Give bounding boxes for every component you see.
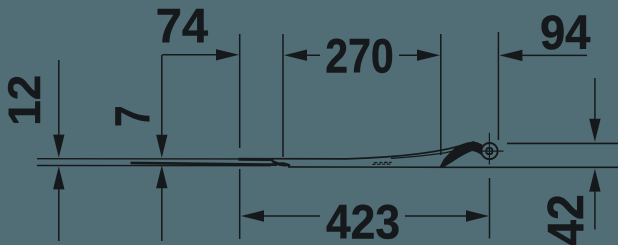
arrow 42 up [589, 169, 600, 192]
dimension line 42 upper shaft [594, 78, 596, 122]
hinge center mark vertical [488, 133, 490, 165]
seat back thick line (B) [131, 163, 278, 165]
dimension line 42 lower shaft [594, 190, 596, 230]
rim line right (R) [456, 166, 618, 168]
dimension line 74 [162, 54, 228, 56]
svg-text:270: 270 [325, 30, 394, 84]
svg-text:74: 74 [156, 0, 208, 53]
extension line V4 (94 left) [497, 32, 499, 140]
arrow 12 down [53, 135, 64, 158]
svg-text:423: 423 [326, 195, 400, 245]
seat ring top line [391, 150, 456, 159]
hinge circle [481, 143, 497, 159]
seat front bumper [272, 160, 291, 166]
dimension line 7 lower shaft [161, 186, 163, 241]
dimension line 94 [510, 54, 587, 56]
hinge center mark horizontal [475, 150, 504, 152]
svg-text:94: 94 [540, 6, 591, 60]
extension line V2 (270 left) [282, 34, 284, 157]
svg-text:12: 12 [0, 75, 50, 126]
dimension line 423 [252, 215, 468, 217]
extension line V3 (270 right) [440, 34, 442, 155]
dimension line 12 lower shaft [58, 187, 60, 241]
dimension line 7 vertical [161, 55, 163, 138]
extension line V5 (423 right) [489, 178, 491, 239]
seat hinge band [440, 142, 483, 167]
seat bottom line [288, 166, 456, 168]
arrow 270 right [417, 50, 440, 61]
arrow 270 left [284, 50, 307, 61]
rim top line left (A) [37, 158, 240, 160]
arrow 94 left [499, 50, 522, 61]
dimension line 12 vertical [58, 60, 60, 138]
arrow 74 right [216, 49, 239, 60]
seat texture dashes [372, 162, 391, 165]
arrow 423 right [466, 210, 489, 221]
arrow 12 up [53, 166, 64, 189]
seat top line [258, 142, 475, 159]
seat profile front tip bar [239, 158, 274, 161]
dimension line 270 [295, 54, 430, 56]
svg-text:42: 42 [537, 194, 594, 245]
svg-text:7: 7 [106, 105, 160, 127]
extension line V1 (74/423 left) [239, 34, 241, 239]
arrow 7 up [156, 165, 167, 188]
arrow 7 down [156, 135, 167, 158]
arrow 423 left [241, 210, 264, 221]
rim lower line left (C) [37, 165, 271, 167]
arrow 42 down [589, 119, 600, 142]
hinge pin square [486, 148, 492, 154]
hinge top reference line (H1) [507, 142, 618, 144]
